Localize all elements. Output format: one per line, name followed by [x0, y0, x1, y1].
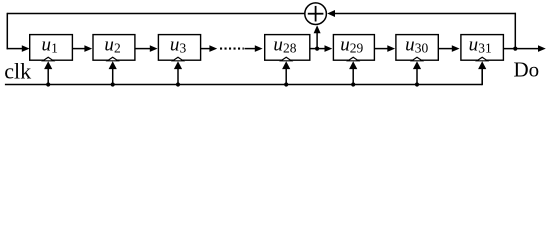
- clock arrow u2: [109, 61, 117, 84]
- clock wedge u1: [43, 57, 53, 61]
- register u2: [93, 34, 135, 60]
- junction dot clk u2: [111, 82, 115, 86]
- wire: top right horizontal into XOR with arrowhead: [327, 10, 516, 17]
- register u1: [30, 34, 73, 60]
- svg-text:u: u: [405, 34, 415, 55]
- svg-text:1: 1: [51, 41, 58, 56]
- wire: u28 to u29 with arrowhead: [310, 45, 333, 52]
- clock wedge u28: [281, 57, 291, 61]
- register u30: [396, 34, 438, 60]
- junction dot: u31 output: [513, 47, 517, 51]
- register u29: [333, 34, 374, 60]
- svg-text:3: 3: [180, 41, 187, 56]
- svg-text:30: 30: [415, 41, 429, 56]
- wire: ellipsis to u28 with arrowhead: [245, 45, 263, 52]
- svg-text:u: u: [42, 34, 52, 55]
- wire: left feedback vertical: [6, 13, 8, 50]
- clock arrow u30: [413, 61, 421, 84]
- clock arrow u29: [349, 61, 357, 84]
- svg-text:28: 28: [283, 41, 297, 56]
- svg-text:clk: clk: [4, 58, 31, 83]
- junction dot clk u1: [46, 82, 50, 86]
- svg-text:u: u: [104, 34, 114, 55]
- clock wedge u2: [108, 57, 118, 61]
- label clk: [4, 58, 31, 83]
- junction dot clk u30: [415, 82, 419, 86]
- junction dot clk u3: [176, 82, 180, 86]
- svg-text:u: u: [340, 34, 350, 55]
- svg-text:31: 31: [478, 41, 492, 56]
- wire: u30 to u31 with arrowhead: [438, 45, 459, 52]
- svg-text:Do: Do: [514, 57, 540, 81]
- register u28: [265, 34, 310, 60]
- clock wedge u30: [412, 57, 422, 61]
- wire: u2 to u3 with arrowhead: [135, 45, 158, 52]
- svg-text:u: u: [170, 34, 180, 55]
- wire: u29 to u30 with arrowhead: [374, 45, 395, 52]
- XOR adder: [305, 3, 327, 25]
- wire: feedback into u1 with arrowhead: [7, 45, 30, 52]
- register u3: [158, 34, 200, 60]
- wire: dotted ellipsis segment: [220, 48, 244, 50]
- junction dot: u28 output tap: [315, 47, 319, 51]
- junction dot clk u29: [351, 82, 355, 86]
- wire: top feedback horizontal (XOR output to left): [7, 13, 304, 15]
- clock arrow u28: [282, 61, 290, 84]
- clock arrow u1: [44, 61, 52, 84]
- clock arrow u3: [174, 61, 182, 84]
- clock wedge u3: [173, 57, 183, 61]
- register u31: [461, 34, 504, 60]
- clk rail: [5, 66, 482, 85]
- junction dot clk u28: [284, 82, 288, 86]
- svg-text:2: 2: [114, 41, 121, 56]
- wire: u1 to u2 with arrowhead: [72, 45, 92, 52]
- svg-text:u: u: [469, 34, 479, 55]
- clock wedge u31: [477, 57, 487, 61]
- svg-text:u: u: [273, 34, 283, 55]
- clock arrow u31: [478, 61, 486, 84]
- svg-text:29: 29: [350, 41, 364, 56]
- label Do: [514, 57, 540, 81]
- wire: right feedback vertical: [514, 13, 516, 49]
- wire: tap up to XOR with arrowhead: [314, 25, 321, 48]
- wire: u31 output to Do arrow: [503, 45, 545, 52]
- wire: u3 to ellipsis arrow: [201, 45, 218, 52]
- clock wedge u29: [348, 57, 358, 61]
